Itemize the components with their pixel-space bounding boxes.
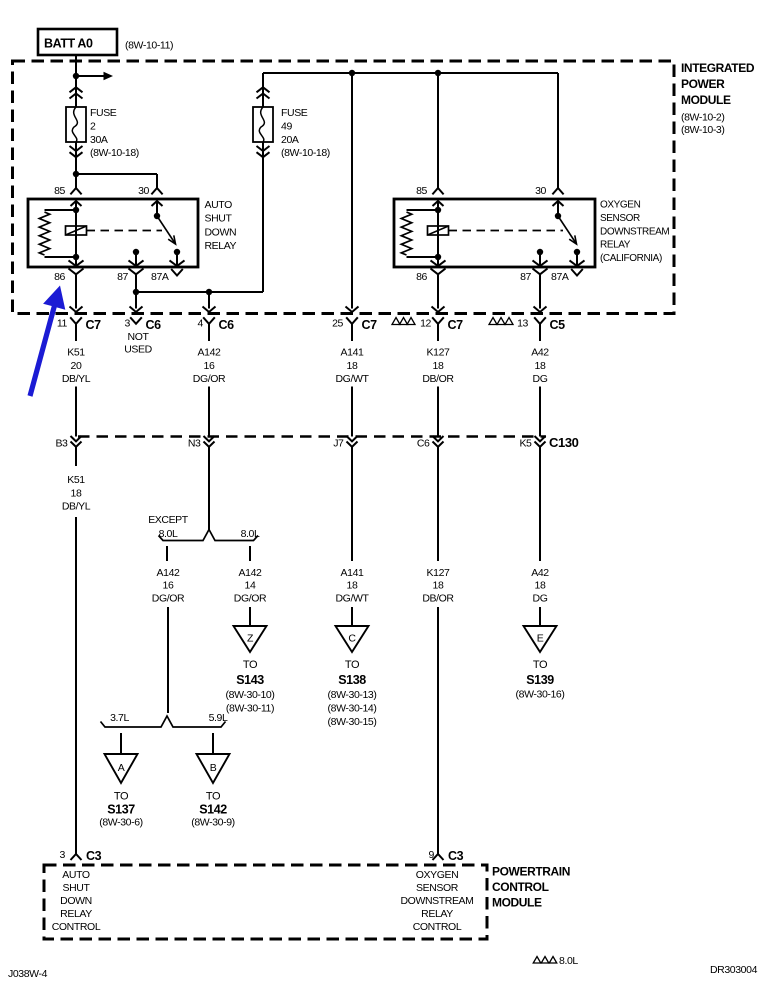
O2 relay coil bottom node bbox=[435, 254, 441, 260]
svg-text:30: 30 bbox=[535, 185, 546, 197]
svg-text:(8W-30-16): (8W-30-16) bbox=[516, 689, 565, 701]
Powertrain Control Module dashed boundary bbox=[44, 865, 487, 939]
svg-text:DR303004: DR303004 bbox=[710, 964, 758, 976]
svg-text:J038W-4: J038W-4 bbox=[8, 968, 48, 980]
svg-text:(8W-30-13): (8W-30-13) bbox=[328, 689, 377, 701]
svg-text:K5: K5 bbox=[519, 438, 532, 450]
svg-text:E: E bbox=[537, 633, 544, 645]
svg-text:TO: TO bbox=[114, 791, 129, 803]
svg-text:12: 12 bbox=[420, 318, 431, 330]
wire fuse 49 down to relay output bus bbox=[262, 142, 264, 292]
svg-text:A141: A141 bbox=[341, 347, 364, 359]
svg-text:20A: 20A bbox=[281, 134, 299, 146]
branch stub 8.0L bbox=[249, 546, 251, 561]
svg-text:(8W-10-2): (8W-10-2) bbox=[681, 111, 724, 123]
wire K51 to PCM bbox=[75, 517, 77, 854]
fuse 2 holder top connector bbox=[70, 94, 83, 99]
connector C5 pin 13 bbox=[534, 317, 546, 324]
node bus to C6-4 bbox=[206, 289, 212, 295]
branch stub 3.7L bbox=[120, 733, 122, 754]
wire K127 between labels bbox=[437, 447, 439, 561]
O2 relay armature linkage (dashed) bbox=[449, 230, 564, 232]
wire A141 between labels bbox=[351, 447, 353, 561]
svg-text:4: 4 bbox=[198, 318, 204, 330]
ASD relay coil bbox=[75, 210, 77, 257]
svg-text:INTEGRATED: INTEGRATED bbox=[681, 61, 755, 75]
O2 relay pin 85 entry terminal bbox=[432, 188, 443, 194]
svg-text:30: 30 bbox=[138, 185, 149, 197]
svg-text:AUTO: AUTO bbox=[62, 869, 90, 881]
PCM entry connector C3 pin 9 bbox=[433, 854, 444, 860]
C130 terminal N3 bbox=[204, 436, 215, 441]
svg-text:8.0L: 8.0L bbox=[159, 528, 178, 540]
svg-text:RELAY: RELAY bbox=[60, 908, 92, 920]
svg-text:S142: S142 bbox=[199, 803, 227, 817]
svg-text:TO: TO bbox=[533, 659, 548, 671]
ASD relay coil bottom node bbox=[73, 254, 79, 260]
wire A42 between labels bbox=[539, 447, 541, 561]
svg-text:DOWN: DOWN bbox=[205, 226, 237, 238]
wire O2 86 to C7-12 bbox=[437, 286, 439, 309]
branch arrow to other circuits bbox=[76, 75, 104, 77]
svg-text:S143: S143 bbox=[236, 673, 264, 687]
ASD relay pin 86 exit bbox=[75, 257, 77, 265]
svg-text:OXYGEN: OXYGEN bbox=[600, 200, 641, 211]
IPM exit arrow at C7 pin 12 bbox=[432, 307, 445, 313]
svg-text:DG/OR: DG/OR bbox=[193, 373, 226, 385]
svg-text:(8W-10-3): (8W-10-3) bbox=[681, 124, 724, 136]
wire A142 16 down to displacement split bbox=[167, 607, 169, 713]
fuse 49 holder bottom connector bbox=[257, 146, 270, 151]
svg-text:DB/OR: DB/OR bbox=[422, 373, 454, 385]
svg-text:C7: C7 bbox=[448, 318, 464, 332]
ASD relay pin 87 exit bbox=[129, 260, 144, 266]
fuse 49 holder top connector bbox=[257, 94, 270, 99]
8.0L marker triangles before pin 13 bbox=[489, 318, 497, 325]
svg-text:C3: C3 bbox=[86, 849, 102, 863]
svg-text:13: 13 bbox=[517, 318, 528, 330]
splice symbol E bbox=[524, 626, 557, 652]
connector C7 pin 11 bbox=[70, 317, 82, 324]
connector C7 pin 12 bbox=[432, 317, 444, 324]
svg-text:CONTROL: CONTROL bbox=[492, 880, 549, 894]
svg-text:C: C bbox=[348, 633, 356, 645]
wire BATT A0 down to fuse 2 bbox=[75, 55, 77, 107]
wires down to C130 bbox=[75, 387, 77, 437]
8.0L marker triangles before pin 12 bbox=[392, 318, 400, 325]
svg-text:BATT A0: BATT A0 bbox=[44, 37, 93, 51]
node top feed to A141 branch bbox=[349, 70, 355, 76]
node ASD 87 output bus bbox=[133, 289, 139, 295]
svg-text:14: 14 bbox=[245, 580, 256, 592]
svg-text:3.7L: 3.7L bbox=[110, 712, 129, 724]
svg-text:(8W-30-10): (8W-30-10) bbox=[226, 689, 275, 701]
ASD relay armature linkage (dashed) bbox=[87, 230, 163, 232]
O2 relay switch common node bbox=[555, 213, 561, 219]
svg-text:5.9L: 5.9L bbox=[209, 712, 228, 724]
svg-text:C7: C7 bbox=[362, 318, 378, 332]
IPM exit arrow at C7 pin 25 bbox=[346, 307, 359, 313]
svg-text:POWER: POWER bbox=[681, 77, 725, 91]
node top feed to O2 relay 85 bbox=[435, 70, 441, 76]
svg-text:B: B bbox=[210, 762, 217, 774]
svg-text:EXCEPT: EXCEPT bbox=[148, 514, 189, 526]
O2 relay pin 87 exit bbox=[533, 260, 548, 266]
C130 terminal J7 bbox=[347, 436, 358, 441]
svg-text:8.0L: 8.0L bbox=[559, 955, 578, 967]
svg-text:OXYGEN: OXYGEN bbox=[416, 869, 459, 881]
svg-text:C5: C5 bbox=[550, 318, 566, 332]
relay box O2 relay bbox=[394, 199, 595, 267]
svg-text:TO: TO bbox=[243, 659, 258, 671]
svg-text:SHUT: SHUT bbox=[205, 213, 233, 225]
svg-text:RELAY: RELAY bbox=[205, 240, 237, 252]
wire fuse 2 to output node bbox=[75, 142, 77, 174]
svg-text:TO: TO bbox=[345, 659, 360, 671]
svg-text:2: 2 bbox=[90, 120, 96, 132]
svg-text:K127: K127 bbox=[427, 347, 450, 359]
branch stub EXCEPT 8.0L bbox=[166, 546, 168, 561]
svg-text:8.0L: 8.0L bbox=[241, 528, 260, 540]
battery feed box BATT A0 bbox=[38, 29, 117, 55]
svg-text:A42: A42 bbox=[531, 347, 549, 359]
svg-text:S138: S138 bbox=[338, 673, 366, 687]
wire O2 87 to C5-13 bbox=[539, 286, 541, 309]
svg-text:K51: K51 bbox=[67, 347, 85, 359]
svg-text:(CALIFORNIA): (CALIFORNIA) bbox=[600, 253, 662, 264]
svg-text:USED: USED bbox=[124, 344, 152, 356]
svg-text:RELAY: RELAY bbox=[600, 240, 631, 251]
svg-text:A42: A42 bbox=[531, 567, 549, 579]
svg-text:30A: 30A bbox=[90, 134, 108, 146]
splice symbol B bbox=[197, 754, 230, 783]
svg-text:TO: TO bbox=[206, 791, 221, 803]
svg-text:11: 11 bbox=[57, 318, 68, 330]
svg-text:85: 85 bbox=[416, 185, 427, 197]
footnote 8.0L marker triangles bbox=[533, 957, 541, 964]
ASD relay pin 87 stub bbox=[133, 249, 139, 255]
svg-text:J7: J7 bbox=[333, 438, 344, 450]
svg-text:Z: Z bbox=[247, 633, 254, 645]
ASD relay pin 87A exit bbox=[170, 260, 185, 266]
svg-text:25: 25 bbox=[332, 318, 343, 330]
ASD relay pin 30 entry terminal bbox=[151, 188, 162, 194]
svg-text:86: 86 bbox=[416, 271, 427, 283]
node fuse 2 output bbox=[73, 171, 79, 177]
svg-text:RELAY: RELAY bbox=[421, 908, 453, 920]
svg-text:DB/YL: DB/YL bbox=[62, 373, 91, 385]
O2 relay coil top node bbox=[435, 207, 441, 213]
svg-text:C7: C7 bbox=[86, 318, 102, 332]
connector C7 pin 25 bbox=[346, 317, 358, 324]
svg-text:A142: A142 bbox=[239, 567, 262, 579]
O2 relay coil resistor bbox=[407, 209, 439, 211]
svg-text:3: 3 bbox=[125, 318, 131, 330]
ASD relay coil resistor bbox=[45, 209, 77, 211]
svg-text:SENSOR: SENSOR bbox=[600, 213, 640, 224]
O2 relay pin 87A connector below (unused) bbox=[571, 269, 583, 276]
svg-text:18: 18 bbox=[347, 580, 358, 592]
ASD relay pin 87A node bbox=[174, 249, 180, 255]
O2 relay switch armature bbox=[558, 216, 577, 244]
svg-text:A141: A141 bbox=[341, 567, 364, 579]
O2 relay pin 30 entry terminal bbox=[552, 188, 563, 194]
svg-text:18: 18 bbox=[347, 360, 358, 372]
svg-text:C3: C3 bbox=[448, 849, 464, 863]
svg-text:DG/WT: DG/WT bbox=[336, 373, 370, 385]
splice symbol C bbox=[336, 626, 369, 652]
svg-text:85: 85 bbox=[54, 185, 65, 197]
svg-text:DOWN: DOWN bbox=[60, 895, 92, 907]
svg-text:FUSE: FUSE bbox=[90, 107, 117, 119]
svg-text:3: 3 bbox=[60, 849, 66, 861]
svg-text:DG/OR: DG/OR bbox=[234, 592, 267, 604]
split bracket EXCEPT 8.0L / 8.0L bbox=[159, 530, 259, 541]
svg-text:AUTO: AUTO bbox=[205, 199, 233, 211]
splice symbol A bbox=[105, 754, 138, 783]
svg-text:C6: C6 bbox=[146, 318, 162, 332]
wire ASD 86 to C7-11 bbox=[75, 286, 77, 309]
wire ASD 87 down to bus bbox=[135, 286, 137, 309]
svg-text:20: 20 bbox=[71, 360, 82, 372]
IPM exit arrow at C5 pin 13 bbox=[534, 307, 547, 313]
svg-text:18: 18 bbox=[433, 580, 444, 592]
IPM exit arrow at C7 pin 11 bbox=[70, 307, 83, 313]
svg-text:(8W-30-9): (8W-30-9) bbox=[191, 817, 234, 829]
svg-text:C6: C6 bbox=[417, 438, 430, 450]
svg-text:9: 9 bbox=[429, 849, 435, 861]
O2 relay pin 86 connector below bbox=[431, 269, 446, 275]
svg-text:18: 18 bbox=[535, 360, 546, 372]
connector C130 dashed line bbox=[78, 435, 546, 437]
O2 relay pin 87A node bbox=[574, 249, 580, 255]
IPM exit arrow at C6 pin 3 bbox=[130, 307, 143, 313]
wire to ASD relay pin 85 bbox=[75, 174, 77, 188]
Integrated Power Module dashed boundary bbox=[13, 61, 675, 314]
branch stub 5.9L bbox=[212, 733, 214, 754]
fuse 2 holder bottom connector bbox=[70, 146, 83, 151]
wire to ASD relay pin 30 bbox=[76, 173, 157, 175]
relay box ASD relay bbox=[28, 199, 198, 267]
svg-text:B3: B3 bbox=[55, 438, 68, 450]
ASD relay pin 87 connector below bbox=[129, 269, 144, 275]
svg-text:(8W-30-14): (8W-30-14) bbox=[328, 703, 377, 715]
wire K127 to PCM bbox=[437, 607, 439, 854]
junction node below BATT A0 bbox=[73, 73, 79, 79]
O2 relay coil bbox=[437, 210, 439, 257]
svg-text:87: 87 bbox=[520, 271, 531, 283]
svg-text:(8W-30-11): (8W-30-11) bbox=[226, 703, 274, 715]
svg-text:DB/YL: DB/YL bbox=[62, 501, 91, 513]
O2 relay pin 87A exit bbox=[570, 260, 585, 266]
svg-text:DOWNSTREAM: DOWNSTREAM bbox=[401, 895, 474, 907]
O2 relay pin 86 exit bbox=[437, 257, 439, 265]
svg-text:SHUT: SHUT bbox=[63, 882, 91, 894]
highlight arrow (blue) pointing at ASD pin 86 circuit bbox=[28, 286, 66, 397]
wire bus to C6-4 bbox=[208, 292, 210, 309]
svg-text:FUSE: FUSE bbox=[281, 107, 308, 119]
splice symbol Z bbox=[234, 626, 267, 652]
O2 relay pin 87 connector below bbox=[533, 269, 548, 275]
svg-text:SENSOR: SENSOR bbox=[416, 882, 459, 894]
svg-text:18: 18 bbox=[535, 580, 546, 592]
svg-text:A142: A142 bbox=[198, 347, 221, 359]
svg-text:(8W-10-11): (8W-10-11) bbox=[125, 40, 173, 52]
svg-text:K51: K51 bbox=[67, 474, 85, 486]
svg-text:A142: A142 bbox=[157, 567, 180, 579]
wire K51 below C130 bbox=[75, 447, 77, 466]
svg-text:87A: 87A bbox=[551, 271, 569, 283]
svg-text:MODULE: MODULE bbox=[681, 93, 731, 107]
svg-text:CONTROL: CONTROL bbox=[413, 921, 462, 933]
svg-text:(8W-10-18): (8W-10-18) bbox=[90, 147, 139, 159]
PCM entry connector C3 pin 3 bbox=[71, 854, 82, 860]
svg-text:DG/WT: DG/WT bbox=[336, 592, 370, 604]
split bracket 3.7L / 5.9L bbox=[101, 716, 226, 727]
svg-text:87: 87 bbox=[117, 271, 128, 283]
fuse F49 body bbox=[253, 107, 273, 142]
svg-text:16: 16 bbox=[163, 580, 174, 592]
C130 terminal C6 bbox=[433, 436, 444, 441]
O2 relay pin 87 stub bbox=[537, 249, 543, 255]
svg-text:A: A bbox=[118, 762, 125, 774]
svg-text:(8W-30-6): (8W-30-6) bbox=[99, 817, 142, 829]
svg-text:86: 86 bbox=[54, 271, 65, 283]
svg-text:DG: DG bbox=[533, 373, 548, 385]
svg-text:C130: C130 bbox=[549, 435, 579, 450]
ASD relay pin 86 connector below bbox=[69, 269, 84, 275]
C130 terminal K5 bbox=[535, 436, 546, 441]
svg-text:49: 49 bbox=[281, 120, 292, 132]
svg-text:18: 18 bbox=[433, 360, 444, 372]
svg-text:(8W-10-18): (8W-10-18) bbox=[281, 147, 330, 159]
ASD relay pin 87A connector below (unused) bbox=[171, 269, 183, 276]
svg-text:NOT: NOT bbox=[128, 331, 150, 343]
ASD relay switch armature bbox=[157, 216, 176, 244]
svg-text:POWERTRAIN: POWERTRAIN bbox=[492, 865, 570, 879]
svg-text:CONTROL: CONTROL bbox=[52, 921, 101, 933]
connector C6 pin 3 bbox=[130, 317, 142, 324]
svg-text:DG/OR: DG/OR bbox=[152, 592, 185, 604]
ASD relay coil top node bbox=[73, 207, 79, 213]
IPM exit arrow at C6 pin 4 bbox=[203, 307, 216, 313]
top feed line from fuse 49 bbox=[263, 72, 558, 74]
svg-text:C6: C6 bbox=[219, 318, 235, 332]
ASD relay pin 85 entry terminal bbox=[70, 188, 81, 194]
svg-text:K127: K127 bbox=[427, 567, 450, 579]
ASD relay switch common node bbox=[154, 213, 160, 219]
svg-text:DOWNSTREAM: DOWNSTREAM bbox=[600, 226, 669, 237]
svg-text:18: 18 bbox=[71, 487, 82, 499]
svg-text:(8W-30-15): (8W-30-15) bbox=[328, 716, 377, 728]
svg-text:DB/OR: DB/OR bbox=[422, 592, 454, 604]
svg-text:MODULE: MODULE bbox=[492, 896, 542, 910]
fuse F2 body bbox=[66, 107, 86, 142]
svg-text:N3: N3 bbox=[188, 438, 201, 450]
svg-text:S139: S139 bbox=[526, 673, 554, 687]
C130 terminal B3 bbox=[71, 436, 82, 441]
svg-text:16: 16 bbox=[204, 360, 215, 372]
svg-text:S137: S137 bbox=[107, 803, 135, 817]
relay output bus wire bbox=[136, 291, 263, 293]
wire N3 down to engine split bbox=[208, 447, 210, 530]
wire A142 14 to splice Z bbox=[249, 607, 251, 626]
svg-text:DG: DG bbox=[533, 592, 548, 604]
connector C6 pin 4 bbox=[203, 317, 215, 324]
svg-text:87A: 87A bbox=[151, 271, 169, 283]
